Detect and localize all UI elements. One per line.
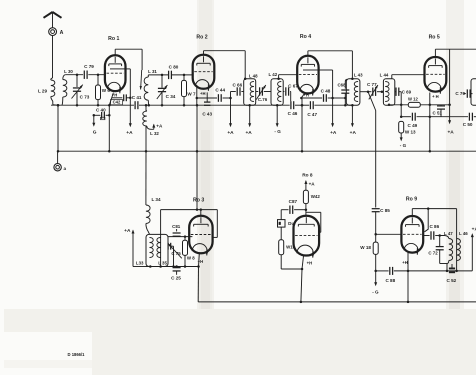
svg-text:L 32: L 32: [150, 131, 159, 136]
svg-text:L 30: L 30: [64, 69, 73, 74]
svg-text:C 47: C 47: [307, 112, 317, 117]
svg-text:W 18: W 18: [360, 245, 371, 250]
svg-text:L 42: L 42: [268, 72, 277, 77]
svg-text:C 40: C 40: [96, 108, 106, 113]
svg-text:+H: +H: [307, 261, 312, 266]
svg-text:C 72: C 72: [428, 250, 438, 255]
svg-text:C 25: C 25: [171, 276, 181, 281]
svg-text:C 75: C 75: [171, 251, 181, 256]
svg-text:W 12: W 12: [408, 96, 418, 101]
svg-text:C 69: C 69: [402, 90, 412, 95]
svg-text:- G: - G: [274, 129, 281, 134]
svg-text:D 1866/1: D 1866/1: [68, 352, 86, 357]
svg-text:C 48: C 48: [321, 88, 331, 93]
svg-text:C 86: C 86: [429, 224, 439, 229]
svg-text:+ H: + H: [432, 94, 439, 99]
svg-text:C81: C81: [172, 224, 181, 229]
svg-text:W 8: W 8: [187, 255, 195, 260]
svg-text:W 7: W 7: [187, 92, 196, 97]
svg-text:L 43: L 43: [354, 73, 363, 78]
svg-text:- G: - G: [400, 143, 407, 148]
svg-text:C 77: C 77: [367, 82, 377, 87]
svg-text:W 13: W 13: [405, 130, 416, 135]
svg-text:L 46: L 46: [459, 231, 468, 236]
svg-text:+A: +A: [472, 227, 476, 233]
svg-text:+H: +H: [402, 260, 407, 265]
svg-text:C 49: C 49: [408, 123, 418, 128]
svg-text:C68: C68: [337, 83, 346, 88]
svg-text:+A: +A: [124, 228, 131, 234]
svg-text:L33: L33: [136, 261, 144, 266]
svg-text:Ro 9: Ro 9: [406, 197, 417, 203]
svg-text:Ro 1: Ro 1: [108, 36, 119, 42]
svg-text:L 31: L 31: [148, 69, 157, 74]
svg-text:L 48: L 48: [249, 73, 258, 78]
svg-text:+A: +A: [350, 130, 357, 136]
svg-text:+A: +A: [126, 130, 133, 136]
svg-text:L 29: L 29: [38, 88, 48, 93]
svg-text:+A: +A: [156, 124, 163, 129]
svg-text:A: A: [60, 30, 64, 36]
svg-text:C 50: C 50: [463, 122, 473, 127]
svg-text:C 44: C 44: [215, 88, 225, 93]
svg-text:+A: +A: [227, 130, 234, 136]
svg-text:L 34: L 34: [151, 197, 161, 202]
svg-text:C 79: C 79: [84, 64, 94, 69]
svg-text:Ro 2: Ro 2: [196, 34, 207, 40]
svg-text:L 47: L 47: [444, 231, 453, 236]
svg-text:C 66: C 66: [232, 82, 242, 87]
svg-text:a: a: [64, 166, 67, 171]
svg-text:+A: +A: [245, 130, 252, 136]
svg-text:Ro 8: Ro 8: [302, 172, 313, 178]
svg-text:C 46: C 46: [288, 111, 298, 116]
svg-text:L 35: L 35: [158, 261, 167, 266]
svg-text:+H: +H: [303, 92, 308, 97]
svg-text:Ro 5: Ro 5: [429, 34, 440, 40]
svg-text:C42: C42: [113, 100, 121, 105]
svg-text:C 73: C 73: [80, 95, 90, 100]
svg-text:G: G: [93, 129, 97, 135]
svg-text:C 80: C 80: [169, 65, 179, 70]
svg-text:+A: +A: [330, 130, 337, 136]
svg-text:- G: - G: [372, 290, 379, 295]
svg-text:+A: +A: [309, 181, 316, 186]
svg-text:C 85: C 85: [380, 208, 390, 213]
svg-text:C.76: C.76: [258, 97, 268, 102]
svg-text:C87: C87: [289, 199, 298, 204]
svg-text:L 44: L 44: [380, 73, 389, 78]
svg-text:C 51: C 51: [433, 111, 443, 116]
svg-text:C 52: C 52: [447, 278, 457, 283]
svg-text:+A: +A: [447, 129, 454, 135]
svg-text:C 70: C 70: [455, 91, 465, 96]
svg-text:+H: +H: [200, 91, 205, 96]
svg-text:C 43: C 43: [202, 111, 212, 116]
svg-text:C 41: C 41: [132, 95, 142, 100]
svg-text:C 34: C 34: [166, 94, 176, 99]
svg-text:Ro 4: Ro 4: [300, 34, 311, 40]
svg-text:W42: W42: [311, 194, 321, 199]
svg-text:Ro 3: Ro 3: [193, 197, 204, 203]
svg-text:C 88: C 88: [385, 278, 395, 283]
